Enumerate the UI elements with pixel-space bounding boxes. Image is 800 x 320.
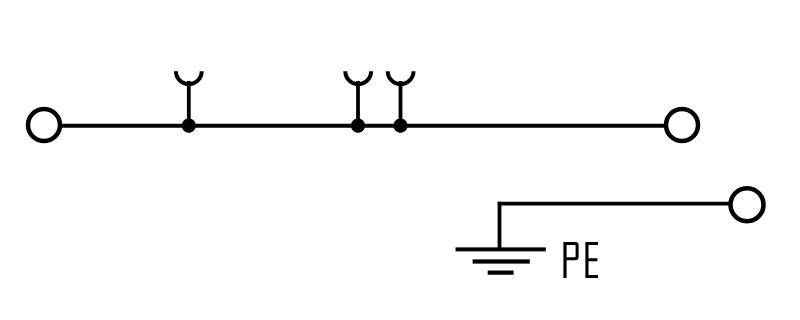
fork tap 1 arc bbox=[176, 71, 202, 84]
fork tap 3 arc bbox=[388, 71, 414, 84]
PE terminal circle bbox=[731, 188, 764, 221]
label PE letter P bbox=[563, 242, 578, 278]
ground bar middle bbox=[473, 259, 530, 263]
fork tap 1 stem bbox=[187, 81, 191, 126]
ground bar bottom bbox=[488, 270, 514, 274]
PE wire horizontal bbox=[498, 202, 729, 206]
label PE letter E bbox=[585, 242, 598, 278]
left terminal circle bbox=[28, 109, 60, 141]
junction dot 1 bbox=[182, 119, 196, 133]
fork tap 3 stem bbox=[399, 81, 403, 126]
right terminal circle bbox=[666, 109, 698, 141]
PE wire vertical bbox=[498, 202, 502, 250]
fork tap 2 arc bbox=[345, 71, 371, 84]
main wire bbox=[62, 124, 664, 128]
junction dot 3 bbox=[393, 119, 407, 133]
junction dot 2 bbox=[351, 119, 365, 133]
fork tap 2 stem bbox=[356, 81, 360, 126]
ground bar top bbox=[456, 247, 546, 251]
